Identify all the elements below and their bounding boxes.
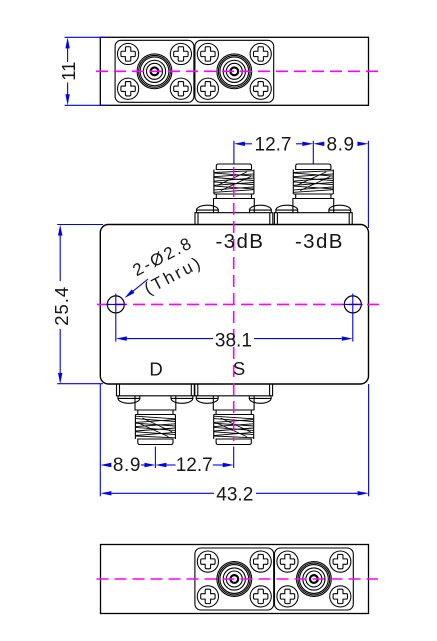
svg-text:25.4: 25.4 — [51, 286, 72, 326]
svg-text:12.7: 12.7 — [255, 135, 292, 156]
svg-text:8.9: 8.9 — [326, 135, 354, 156]
svg-text:-3dB: -3dB — [295, 230, 344, 253]
svg-text:12.7: 12.7 — [176, 455, 213, 476]
svg-text:D: D — [149, 358, 162, 379]
svg-text:S: S — [233, 358, 245, 379]
svg-text:-3dB: -3dB — [215, 230, 264, 253]
svg-text:11: 11 — [58, 62, 79, 81]
svg-text:43.2: 43.2 — [216, 484, 253, 505]
svg-text:8.9: 8.9 — [113, 455, 141, 476]
svg-text:38.1: 38.1 — [215, 330, 252, 351]
